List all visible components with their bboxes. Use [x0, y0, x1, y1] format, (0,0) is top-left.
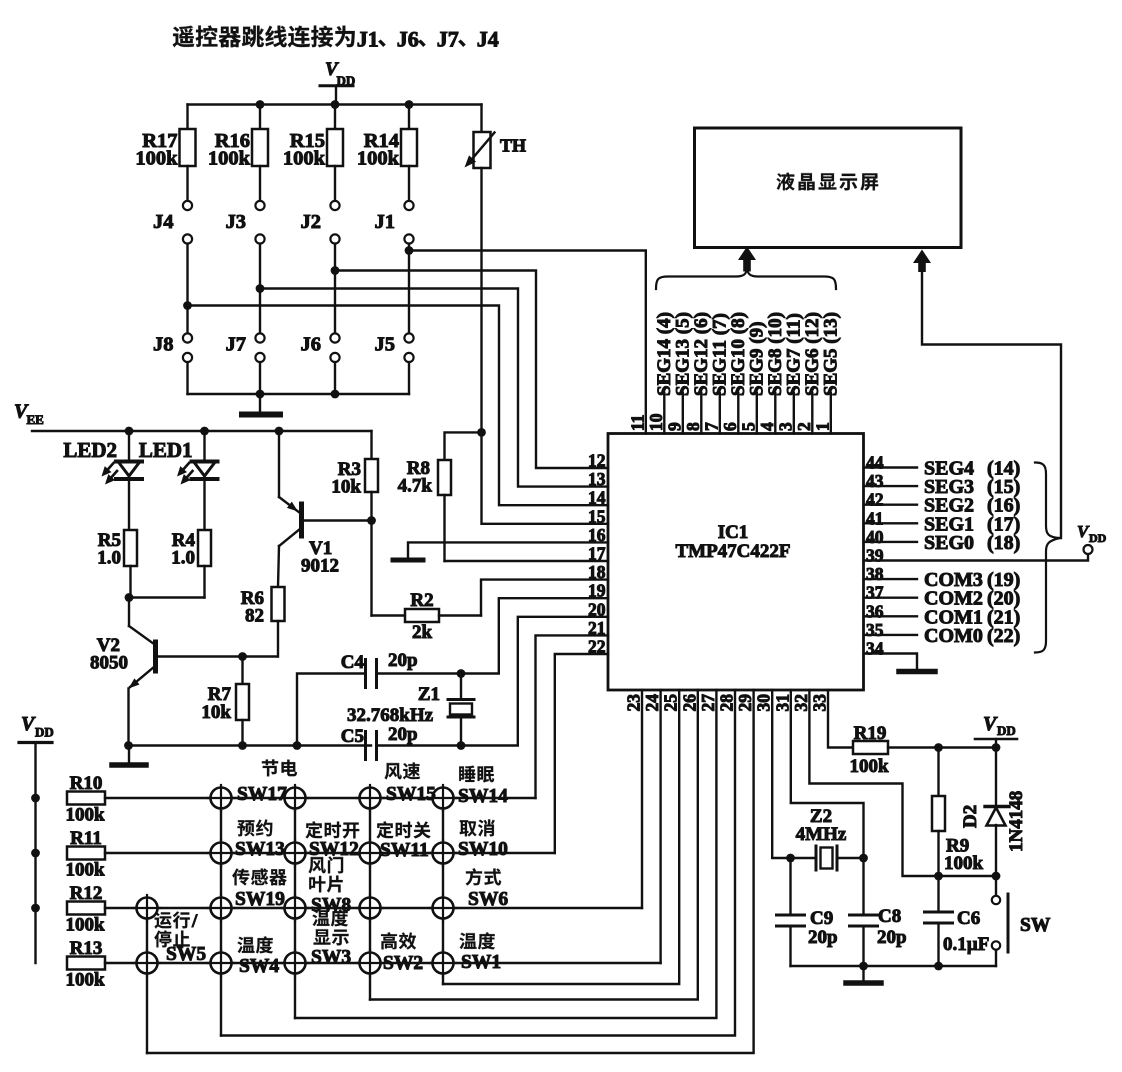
- svg-text:4.7k: 4.7k: [398, 476, 433, 497]
- wire switch row 4 to IC pin 24: [659, 690, 661, 963]
- resistor R19 100k: [849, 723, 889, 777]
- VDD power symbol (top): [320, 59, 355, 105]
- wire pin 40 stub: [864, 541, 918, 543]
- svg-text:8050: 8050: [90, 653, 128, 674]
- switch SW14 key symbol: [433, 788, 454, 809]
- wire pin 35 stub: [864, 634, 918, 636]
- wire J1 to J5 column: [408, 244, 410, 334]
- op-amp/microcontroller IC1 TMP47C422F body: [608, 434, 864, 691]
- svg-text:J6: J6: [301, 334, 322, 356]
- wire column SW3 to IC pin 27: [295, 690, 716, 1018]
- VEE power symbol: [14, 401, 44, 428]
- ground wire (V2 emitter / C4 / C5 / R7): [124, 741, 371, 750]
- wire J4 to J8 column: [186, 244, 188, 334]
- svg-text:35: 35: [866, 620, 884, 640]
- capacitor C4 20p: [297, 650, 461, 746]
- wire pin 36 stub: [864, 615, 918, 617]
- net label SEG2 (16): [924, 495, 1020, 517]
- switch SW3 key symbol: [285, 953, 306, 974]
- wire IC pin 16 to ground: [408, 542, 608, 557]
- crystal Z2 4MHz: [791, 806, 868, 870]
- svg-text:7: 7: [701, 422, 721, 431]
- svg-text:40: 40: [866, 527, 884, 547]
- label 传感器 SW19: [232, 868, 287, 910]
- brace over SEG5-SEG14 labels: [656, 267, 836, 290]
- wire IC pin 31 to Z2 right: [791, 690, 864, 858]
- switch SW11 key symbol: [360, 843, 381, 864]
- svg-text:LED2: LED2: [63, 438, 117, 462]
- svg-text:27: 27: [698, 694, 718, 712]
- net label SEG4 (14): [924, 458, 1020, 480]
- wire SEG top pin 2: [811, 393, 813, 434]
- svg-text:SW4: SW4: [239, 956, 279, 977]
- wire column SW4 to IC pin 28: [221, 690, 735, 1036]
- svg-text:9012: 9012: [301, 556, 339, 577]
- switch SW6 key symbol: [433, 898, 454, 919]
- label 风速 SW15: [385, 763, 437, 805]
- switch SW16 key symbol: [285, 788, 306, 809]
- wire R8 to IC pin 17: [445, 560, 609, 562]
- label 温度 SW4: [238, 936, 280, 977]
- wire pin 41 stub: [864, 522, 918, 524]
- wire switch row 2: [105, 852, 555, 854]
- capacitor C8 20p: [850, 858, 907, 966]
- wire pin 37 stub: [864, 597, 918, 599]
- svg-text:24: 24: [642, 694, 662, 712]
- svg-text:J1: J1: [357, 27, 379, 52]
- svg-text:SW3: SW3: [311, 947, 351, 968]
- svg-text:C5: C5: [341, 726, 364, 747]
- label 睡眠 SW14: [458, 766, 508, 807]
- svg-text:13: 13: [588, 469, 606, 489]
- wire VDD column to R10-R13: [31, 794, 40, 963]
- jumper J5 contacts: [375, 333, 414, 362]
- svg-text:TH: TH: [500, 136, 526, 156]
- wire switch row 3 to IC pin 23: [641, 690, 643, 908]
- svg-text:J7: J7: [437, 27, 459, 52]
- switch SW10 key symbol: [433, 843, 454, 864]
- wire IC pin 33 to R19: [828, 690, 853, 748]
- node J4 row / wire to IC pin 14: [183, 301, 608, 505]
- svg-text:TMP47C422F: TMP47C422F: [675, 541, 790, 562]
- svg-text:4MHz: 4MHz: [796, 824, 847, 845]
- switch SW13 key symbol: [211, 843, 232, 864]
- resistor R11 100k: [65, 828, 105, 881]
- jumper bottom rail wire: [188, 393, 410, 395]
- svg-text:SW15: SW15: [386, 784, 436, 805]
- svg-text:COM0: COM0: [924, 625, 983, 647]
- resistor R15 100k: [283, 105, 343, 202]
- capacitor C6 0.1uF: [925, 876, 990, 966]
- svg-text:20p: 20p: [877, 927, 907, 948]
- svg-text:6: 6: [720, 422, 740, 431]
- wire column SW1 to IC pin 25: [443, 690, 679, 984]
- svg-text:10: 10: [646, 413, 666, 431]
- arrow into LCD from COM/SEG brace (right): [913, 250, 931, 273]
- wire SEG top pin 9: [682, 393, 684, 434]
- svg-text:20p: 20p: [388, 650, 418, 671]
- svg-text:J4: J4: [153, 211, 174, 233]
- wire IC pin 30 to Z2 left: [772, 690, 795, 862]
- title note: remote jumper connections: [173, 26, 499, 52]
- svg-text:R2: R2: [410, 590, 433, 611]
- svg-text:(22): (22): [987, 625, 1020, 647]
- svg-text:SEG0: SEG0: [924, 532, 974, 554]
- svg-text:R12: R12: [70, 883, 103, 904]
- resistor R9 100k: [932, 748, 984, 877]
- wire R5/R4 bottoms join: [125, 566, 205, 602]
- svg-text:EE: EE: [27, 412, 44, 427]
- resistor R8 4.7k: [398, 428, 486, 561]
- net label SEG0 (18): [924, 532, 1020, 554]
- svg-text:37: 37: [866, 583, 884, 603]
- svg-text:20p: 20p: [388, 724, 418, 745]
- switch SW1 key symbol: [433, 953, 454, 974]
- wire column SW2 to IC pin 26: [370, 690, 698, 1000]
- svg-text:42: 42: [866, 490, 884, 510]
- wire SEG top pin 10: [663, 393, 665, 434]
- wire V1 base to R3 node: [302, 516, 376, 525]
- svg-text:29: 29: [735, 694, 755, 712]
- svg-text:J8: J8: [153, 334, 174, 356]
- svg-text:J7: J7: [226, 334, 247, 356]
- net label COM0 (22): [924, 625, 1020, 647]
- svg-text:8: 8: [683, 422, 703, 431]
- svg-text:SW13: SW13: [235, 839, 285, 860]
- VDD terminal (right): [1077, 522, 1107, 554]
- label 温度显示 SW3: [311, 909, 351, 968]
- wire V2 base: [156, 655, 278, 657]
- LCD display box 液晶显示屏: [695, 128, 962, 248]
- arrow from SEG bus brace into LCD: [738, 247, 756, 272]
- label 温度 SW1: [460, 932, 502, 973]
- svg-text:SW5: SW5: [166, 944, 206, 965]
- resistor R14 100k: [357, 105, 417, 202]
- ground symbol (jumper matrix): [242, 394, 280, 415]
- node J1 row / wire to IC pin 11: [405, 246, 646, 433]
- switch SW12 key symbol: [285, 843, 306, 864]
- svg-text:33: 33: [810, 694, 830, 712]
- resistor R4 1.0: [171, 530, 211, 569]
- node J2 row / wire to IC pin 12: [331, 266, 608, 468]
- pushbutton switch SW: [992, 876, 1051, 966]
- wire pin 43 stub: [864, 485, 918, 487]
- jumper J3 contacts: [226, 201, 265, 244]
- svg-text:31: 31: [772, 694, 792, 712]
- capacitor C9 20p: [777, 858, 838, 966]
- switch SW8 key symbol: [285, 898, 306, 919]
- wire IC pin 20 to Z1 bottom: [461, 617, 608, 746]
- wire switch row 1: [105, 797, 536, 799]
- label 定时开 SW12: [305, 821, 359, 860]
- wire J7 to bottom rail: [259, 362, 261, 394]
- svg-text:D2: D2: [960, 805, 981, 828]
- label 高效 SW2: [381, 932, 423, 974]
- svg-text:1: 1: [812, 422, 832, 431]
- svg-text:SW19: SW19: [235, 889, 285, 910]
- svg-text:100k: 100k: [283, 148, 326, 170]
- wire J3 to J7 column: [259, 244, 261, 334]
- svg-text:SW6: SW6: [468, 889, 508, 910]
- jumper J4 contacts: [153, 201, 192, 244]
- wire J5 to bottom rail: [408, 362, 410, 394]
- wire column SW5 to IC pin 29: [147, 690, 754, 1053]
- svg-text:SW14: SW14: [458, 786, 508, 807]
- svg-text:SW17: SW17: [237, 784, 287, 805]
- node J3 row / wire to IC pin 13: [256, 284, 608, 487]
- svg-text:(18): (18): [987, 532, 1020, 554]
- svg-text:100k: 100k: [135, 148, 178, 170]
- svg-text:1.0: 1.0: [97, 548, 121, 569]
- resistor R3 10k: [331, 431, 378, 616]
- svg-text:100k: 100k: [65, 805, 105, 826]
- svg-text:SW: SW: [1020, 915, 1051, 936]
- label 风门叶片 SW8: [309, 856, 352, 916]
- wire J6 to bottom rail: [334, 362, 336, 394]
- svg-text:4: 4: [757, 422, 777, 431]
- svg-text:100k: 100k: [208, 148, 251, 170]
- net label SEG1 (17): [924, 513, 1020, 535]
- svg-text:/: /: [191, 911, 198, 932]
- svg-text:1N4148: 1N4148: [1006, 791, 1027, 852]
- ground symbol (pin 16): [393, 558, 423, 563]
- label 节电 SW17: [237, 760, 297, 806]
- svg-text:V: V: [983, 713, 998, 735]
- label 定时关 SW11: [376, 821, 430, 861]
- svg-text:3: 3: [775, 422, 795, 431]
- right brace over SEG0-4/COM0-3 labels: [1035, 463, 1060, 653]
- wire pin 38 stub: [864, 578, 918, 580]
- svg-text:20p: 20p: [808, 927, 838, 948]
- jumper J7 contacts: [226, 333, 265, 362]
- resistor R7 10k: [201, 652, 249, 745]
- svg-text:J3: J3: [226, 211, 247, 233]
- net label COM3 (19): [924, 569, 1020, 591]
- svg-text:100k: 100k: [849, 756, 889, 777]
- svg-text:C9: C9: [810, 908, 833, 929]
- ground symbol (pin 34): [899, 669, 935, 675]
- switch SW15 key symbol: [360, 788, 381, 809]
- svg-text:DD: DD: [997, 723, 1016, 738]
- resistor R2 2k: [372, 590, 482, 643]
- wire SEG top pin 1: [830, 393, 832, 434]
- net label COM2 (20): [924, 588, 1020, 610]
- switch SW2 key symbol: [360, 953, 381, 974]
- svg-text:32.768kHz: 32.768kHz: [347, 705, 434, 726]
- svg-text:23: 23: [624, 694, 644, 712]
- switch SW20 key symbol: [137, 898, 158, 919]
- wire IC pin 32 to reset node: [809, 690, 1000, 880]
- svg-text:39: 39: [866, 546, 884, 566]
- wire IC pin 19 to Z1 top: [461, 598, 608, 673]
- jumper J1 contacts: [375, 201, 414, 244]
- jumper J2 contacts: [301, 201, 340, 244]
- resistor R13 100k: [65, 938, 105, 991]
- wire SEG top pin 8: [700, 393, 702, 434]
- svg-text:32: 32: [791, 694, 811, 712]
- svg-text:Z1: Z1: [418, 684, 440, 705]
- resistor R17 100k: [135, 105, 195, 202]
- svg-text:R11: R11: [70, 828, 102, 849]
- wire pin 39 to VDD: [864, 554, 1089, 561]
- wire SEG top pin 5: [756, 393, 758, 434]
- svg-text:100k: 100k: [357, 148, 400, 170]
- svg-text:9: 9: [664, 422, 684, 431]
- svg-text:SW1: SW1: [461, 952, 501, 973]
- wire pin 42 stub: [864, 504, 918, 506]
- svg-text:5: 5: [738, 422, 758, 431]
- switch SW19 key symbol: [211, 898, 232, 919]
- switch SW5 key symbol: [137, 953, 158, 974]
- wire SEG top pin 4: [774, 393, 776, 434]
- svg-text:10k: 10k: [201, 702, 231, 723]
- wire from right brace to LCD arrow: [922, 271, 1061, 538]
- svg-text:41: 41: [866, 508, 884, 528]
- wire IC pin 22 to switch row 2: [555, 654, 608, 853]
- wire SEG top pin 7: [719, 393, 721, 434]
- svg-text:SEG5 (13): SEG5 (13): [820, 312, 841, 396]
- svg-text:25: 25: [661, 694, 681, 712]
- svg-text:C8: C8: [878, 906, 901, 927]
- transistor V1 9012: [278, 431, 339, 587]
- svg-text:J2: J2: [301, 211, 322, 233]
- wire R19 to VDD node: [888, 743, 1000, 752]
- svg-text:J5: J5: [375, 334, 396, 356]
- svg-text:IC1: IC1: [718, 522, 749, 543]
- svg-text:2k: 2k: [412, 622, 433, 643]
- svg-text:DD: DD: [35, 725, 54, 740]
- svg-text:SW11: SW11: [380, 840, 429, 861]
- ground wire (oscillator/reset): [791, 962, 997, 971]
- wire switch row 4: [105, 962, 661, 964]
- transistor V2 8050: [90, 598, 156, 746]
- junction dots on VDD rail: [256, 100, 265, 109]
- VDD power symbol (bottom left): [19, 713, 54, 798]
- svg-text:J4: J4: [477, 27, 499, 52]
- resistor R12 100k: [65, 883, 105, 936]
- svg-text:10k: 10k: [331, 477, 361, 498]
- label 取消 SW10: [458, 820, 508, 861]
- svg-text:82: 82: [245, 606, 264, 627]
- wire J8 to bottom rail: [186, 362, 188, 394]
- switch SW7 key symbol: [360, 898, 381, 919]
- svg-text:J1: J1: [375, 211, 396, 233]
- svg-text:43: 43: [866, 471, 884, 491]
- svg-text:1.0: 1.0: [171, 548, 195, 569]
- svg-text:100k: 100k: [65, 915, 105, 936]
- resistor R16 100k: [208, 105, 268, 202]
- wire pin 34 to ground: [864, 654, 918, 669]
- capacitor C5 20p: [341, 724, 461, 760]
- label 预约 SW13: [235, 820, 285, 861]
- svg-text:100k: 100k: [65, 860, 105, 881]
- net label COM1 (21): [924, 606, 1020, 628]
- ground symbol (bottom right): [846, 966, 881, 983]
- svg-text:30: 30: [754, 694, 774, 712]
- VDD power symbol (bottom right): [975, 713, 1017, 748]
- wire R2 to IC pin 18: [481, 580, 608, 616]
- svg-text:DD: DD: [1089, 531, 1107, 545]
- svg-text:R10: R10: [70, 773, 103, 794]
- svg-text:28: 28: [717, 694, 737, 712]
- wire SEG top pin 3: [793, 393, 795, 434]
- svg-text:38: 38: [866, 564, 884, 584]
- svg-text:R19: R19: [854, 723, 887, 744]
- wire TH node down to IC pin 15: [482, 432, 609, 523]
- ground symbol (left): [112, 746, 146, 766]
- svg-text:14: 14: [588, 488, 606, 508]
- wire switch row 3: [105, 907, 642, 909]
- svg-text:34: 34: [866, 639, 884, 659]
- svg-text:C6: C6: [957, 908, 980, 929]
- wire SEG top pin 6: [737, 393, 739, 434]
- svg-text:C4: C4: [341, 652, 365, 673]
- svg-text:2: 2: [794, 422, 814, 431]
- net label SEG3 (15): [924, 476, 1020, 498]
- svg-text:LED1: LED1: [139, 438, 193, 462]
- svg-text:SW12: SW12: [309, 839, 359, 860]
- svg-text:SW10: SW10: [458, 839, 508, 860]
- svg-text:44: 44: [866, 453, 884, 473]
- wire IC pin 21 to switch row 1: [536, 635, 609, 798]
- switch SW17 key symbol: [211, 788, 232, 809]
- VEE rail wire: [32, 430, 372, 432]
- LED LED2: [63, 431, 142, 530]
- resistor R10 100k: [65, 773, 105, 826]
- svg-text:26: 26: [679, 694, 699, 712]
- label 方式 SW6: [466, 868, 509, 910]
- svg-text:J6: J6: [397, 27, 419, 52]
- svg-text:11: 11: [627, 414, 647, 431]
- svg-text:R13: R13: [70, 938, 103, 959]
- svg-text:V: V: [21, 713, 36, 735]
- jumper J6 contacts: [301, 333, 340, 362]
- jumper J8 contacts: [153, 333, 192, 362]
- svg-text:SW2: SW2: [383, 953, 423, 974]
- svg-text:36: 36: [866, 601, 884, 621]
- resistor R5 1.0: [97, 530, 137, 569]
- svg-text:12: 12: [588, 451, 606, 471]
- wire pin 44 stub: [864, 466, 918, 468]
- svg-text:0.1µF: 0.1µF: [943, 934, 989, 955]
- VDD rail wire (top): [188, 103, 482, 105]
- switch column wires: [147, 798, 443, 1053]
- LED LED1: [139, 431, 218, 530]
- diode D2 1N4148: [960, 748, 1027, 877]
- svg-text:100k: 100k: [65, 970, 105, 991]
- resistor R6 82: [241, 587, 285, 657]
- switch SW4 key symbol: [211, 953, 232, 974]
- crystal Z1 32.768kHz: [347, 669, 474, 750]
- thermistor TH: [465, 105, 527, 433]
- svg-text:100k: 100k: [944, 853, 984, 874]
- wire J2 to J6 column: [334, 244, 336, 334]
- label 运行/停止 SW5: [154, 911, 206, 965]
